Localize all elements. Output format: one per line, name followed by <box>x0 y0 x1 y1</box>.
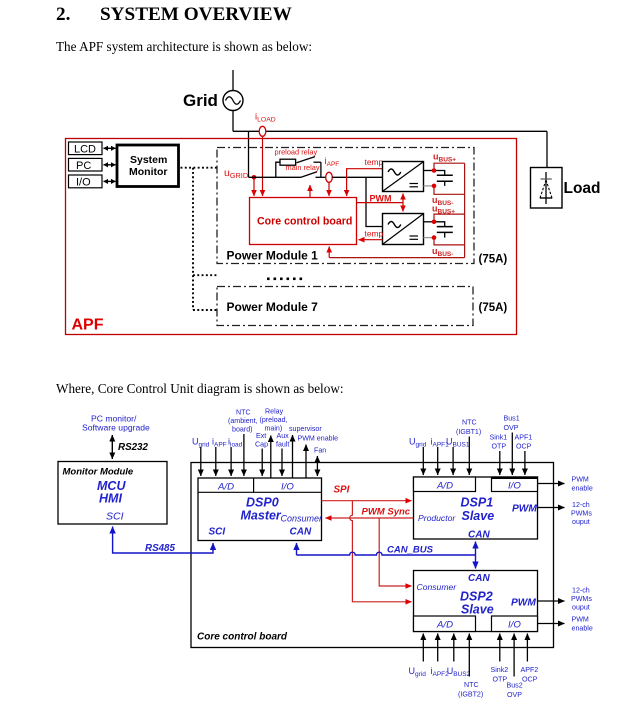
capacitor C1 plates <box>437 175 453 181</box>
block LCD <box>69 142 103 156</box>
svg-text:Monitor Module: Monitor Module <box>63 467 134 478</box>
ellipsis modules 2..6 <box>267 278 302 281</box>
svg-text:Sink1: Sink1 <box>490 434 508 442</box>
svg-text:Bus2: Bus2 <box>507 682 523 690</box>
bus2 sense loop <box>434 214 465 245</box>
svg-text:NTC: NTC <box>462 419 477 427</box>
sense wire iLOAD to core board <box>262 137 264 197</box>
svg-text:Ext: Ext <box>256 432 266 440</box>
block DSP1 <box>414 477 538 541</box>
cap2 bottom stub <box>424 237 435 239</box>
cap1 bottom stub <box>424 185 435 187</box>
signal PWM enable out <box>298 435 339 479</box>
svg-text:main relay: main relay <box>286 163 320 172</box>
signal Ugrid dsp2 <box>409 634 427 679</box>
svg-text:(ambient,: (ambient, <box>228 417 258 425</box>
svg-text:CAN: CAN <box>468 530 490 541</box>
svg-text:uGRID: uGRID <box>224 167 248 180</box>
svg-text:OCP: OCP <box>522 676 538 684</box>
svg-text:fault: fault <box>276 441 289 449</box>
svg-text:12-ch: 12-ch <box>572 501 590 509</box>
svg-text:temp: temp <box>365 157 384 167</box>
svg-text:PWM: PWM <box>511 598 536 609</box>
current sensor iLOAD <box>259 126 266 136</box>
svg-text:OTP: OTP <box>492 443 507 451</box>
svg-text:Bus1: Bus1 <box>504 415 520 423</box>
temp1 wire into core <box>347 169 383 196</box>
core control board enclosure <box>191 463 554 648</box>
preload relay switch blade <box>297 157 316 163</box>
intro paragraph <box>56 39 312 55</box>
signal Ext Cap in <box>255 432 268 476</box>
signal Relay out <box>260 408 288 479</box>
svg-text:CAN: CAN <box>468 573 490 584</box>
relay control arrow from core <box>309 185 311 198</box>
svg-text:(IGBT2): (IGBT2) <box>458 691 483 699</box>
signal Sink1 OTP dsp1 <box>490 434 508 476</box>
inverter 1 <box>383 162 424 192</box>
wire to load <box>546 131 548 167</box>
svg-text:UBUS1: UBUS1 <box>446 437 470 449</box>
wire main AC line left <box>249 176 302 178</box>
bus1 sense loop <box>434 163 465 194</box>
block I/O <box>69 175 103 189</box>
block PC <box>69 158 103 172</box>
signal iAPF2 dsp2 <box>431 634 450 679</box>
svg-text:PWM Sync: PWM Sync <box>362 507 411 518</box>
svg-text:enable: enable <box>572 485 593 493</box>
output PWM enable dsp2 <box>538 616 593 633</box>
svg-text:I/O: I/O <box>508 620 521 631</box>
AC source (grid) <box>223 91 243 111</box>
sense arrow uGRID into core <box>253 179 255 196</box>
svg-text:(preload,: (preload, <box>260 416 288 424</box>
signal Sink2 OTP dsp2 <box>491 634 509 684</box>
cap2 top stub <box>424 221 435 223</box>
cap1 bottom lead <box>444 181 446 186</box>
svg-text:A/D: A/D <box>217 482 234 493</box>
svg-text:PWMs: PWMs <box>571 595 592 603</box>
signal NTC IGBT2 dsp2 <box>458 634 483 699</box>
cap2 bottom lead <box>444 232 446 237</box>
svg-text:Productor: Productor <box>418 513 456 523</box>
Power Module 7 enclosure <box>217 287 473 326</box>
svg-text:iAPF: iAPF <box>212 437 227 449</box>
signal Ugrid in <box>192 437 210 477</box>
svg-text:Core control board: Core control board <box>197 632 288 643</box>
svg-text:Power Module 7: Power Module 7 <box>227 300 319 314</box>
cap2 top lead <box>434 222 445 227</box>
capacitor C2 plates <box>437 227 453 233</box>
svg-text:LCD: LCD <box>74 144 96 156</box>
CAN_BUS wire <box>297 552 476 555</box>
signal iAPF1 dsp1 <box>431 437 450 476</box>
svg-text:Power Module 1: Power Module 1 <box>227 249 319 263</box>
signal APF1 OCP dsp1 <box>515 434 533 476</box>
svg-text:OTP: OTP <box>493 676 508 684</box>
block DSP2 <box>414 571 538 632</box>
svg-text:Master: Master <box>241 509 282 523</box>
svg-text:System: System <box>130 154 167 166</box>
svg-text:I/O: I/O <box>281 482 294 493</box>
wire down into APF <box>248 131 250 177</box>
wire top bus horizontal <box>233 130 547 132</box>
PWM double arrow between inverters <box>402 194 404 212</box>
signal Fan bidirectional <box>314 447 326 477</box>
output PWM enable dsp1 <box>538 476 593 493</box>
output 12ch PWM dsp1 <box>538 501 593 526</box>
svg-text:APF: APF <box>72 317 104 334</box>
signal UBUS2 dsp2 <box>447 634 471 679</box>
block Monitor Module <box>58 462 167 525</box>
svg-text:OVP: OVP <box>504 424 519 432</box>
svg-text:uBUS-: uBUS- <box>432 246 453 258</box>
signal NTC in <box>228 409 258 477</box>
svg-text:iAPF: iAPF <box>325 156 340 168</box>
svg-text:APF1: APF1 <box>515 434 533 442</box>
svg-text:PWM: PWM <box>572 476 589 484</box>
svg-text:A/D: A/D <box>436 481 453 492</box>
svg-text:I/O: I/O <box>508 481 521 492</box>
svg-text:Sink2: Sink2 <box>491 666 509 674</box>
svg-text:board): board) <box>232 426 253 434</box>
heading title <box>100 4 292 26</box>
dotted stub to middle modules <box>193 274 218 276</box>
svg-text:Ugrid: Ugrid <box>409 437 427 449</box>
svg-text:Grid: Grid <box>183 91 218 110</box>
svg-text:Relay: Relay <box>265 408 284 416</box>
signal NTC IGBT1 dsp1 <box>456 419 481 476</box>
svg-text:PC: PC <box>76 160 91 172</box>
svg-text:DSP2: DSP2 <box>460 590 493 604</box>
svg-text:SCI: SCI <box>106 511 124 523</box>
preload branch drop <box>320 162 322 177</box>
signal APF2 OCP dsp2 <box>521 634 539 684</box>
dotted link monitor to module 1 <box>181 167 218 169</box>
wire source to bus <box>232 111 234 132</box>
link PC-SystemMonitor <box>104 164 116 166</box>
svg-text:CAN: CAN <box>290 527 312 538</box>
output 12ch PWM dsp2 <box>538 587 593 612</box>
temp2 wire into core <box>359 239 383 241</box>
svg-text:PWM enable: PWM enable <box>298 435 339 443</box>
signal iAPF in <box>212 437 227 477</box>
svg-text:Slave: Slave <box>462 509 495 523</box>
svg-text:Monitor: Monitor <box>129 166 168 178</box>
preload resistor <box>280 159 296 165</box>
CAN arrow DSP0 <box>296 543 298 555</box>
preload branch riser <box>276 162 280 177</box>
svg-text:NTC: NTC <box>464 681 479 689</box>
svg-text:CAN_BUS: CAN_BUS <box>387 545 434 556</box>
red drop 1 to DSP2 <box>350 501 412 602</box>
bus sense arrow into core <box>328 247 330 258</box>
main relay switch blade <box>301 172 317 178</box>
dotted link to module 7 <box>193 309 219 311</box>
node Ubus1+ <box>432 168 437 173</box>
wire drop to inverter 2 <box>366 177 383 226</box>
svg-text:Ugrid: Ugrid <box>409 666 427 678</box>
svg-text:Fan: Fan <box>314 447 326 455</box>
CAN link DSP1-DSP2 <box>475 542 477 569</box>
svg-text:ouput: ouput <box>572 604 590 612</box>
svg-text:SPI: SPI <box>334 485 350 496</box>
link LCD-SystemMonitor <box>104 147 116 149</box>
bus sense trunk vertical <box>464 163 466 257</box>
svg-text:Consumer: Consumer <box>281 514 324 524</box>
wire grid drop to source <box>232 70 234 91</box>
svg-text:(IGBT1): (IGBT1) <box>456 428 481 436</box>
block Core control board <box>250 198 357 245</box>
signal Ugrid dsp1 <box>409 437 427 476</box>
svg-text:Software upgrade: Software upgrade <box>82 423 150 433</box>
svg-text:iload: iload <box>228 437 243 449</box>
svg-text:Cap: Cap <box>255 441 268 449</box>
wire sensor to inverters <box>332 176 382 178</box>
signal UBUS1 dsp1 <box>446 437 470 476</box>
svg-text:Slave: Slave <box>461 603 494 617</box>
svg-text:(75A): (75A) <box>479 302 508 314</box>
svg-text:preload relay: preload relay <box>275 148 318 157</box>
svg-text:A/D: A/D <box>436 620 453 631</box>
signal Bus1 OVP dsp1 <box>504 415 520 476</box>
svg-text:Load: Load <box>564 180 601 197</box>
cap1 top lead <box>434 171 445 176</box>
svg-text:DSP1: DSP1 <box>461 496 494 510</box>
node Ubus2+ <box>432 220 437 225</box>
svg-text:iLOAD: iLOAD <box>255 112 276 124</box>
preload branch top wire <box>314 161 321 163</box>
APF enclosure box <box>66 139 517 335</box>
link IO-SystemMonitor <box>104 180 116 182</box>
signal Bus2 OVP dsp2 <box>507 634 523 700</box>
node uGRID dot <box>252 175 257 180</box>
svg-text:ouput: ouput <box>572 518 590 526</box>
svg-text:OVP: OVP <box>507 691 522 699</box>
red drop 2 to DSP2 <box>379 518 411 586</box>
link PWM Sync <box>326 517 414 519</box>
dotted trunk vertical <box>192 168 194 310</box>
link SPI <box>322 500 412 502</box>
svg-text:OCP: OCP <box>516 443 532 451</box>
current sensor iAPF <box>326 172 333 182</box>
signal Aux fault in <box>276 432 289 476</box>
sense arrow iAPF into core <box>328 182 330 196</box>
svg-text:enable: enable <box>572 625 593 633</box>
svg-text:PWM: PWM <box>572 616 589 624</box>
svg-text:12-ch: 12-ch <box>572 587 590 595</box>
inverter 2 <box>383 214 424 245</box>
cap1 top stub <box>424 170 435 172</box>
svg-text:(75A): (75A) <box>479 254 508 266</box>
link RS232 double arrow <box>111 435 113 459</box>
svg-text:RS232: RS232 <box>118 442 149 453</box>
bus sense return wire <box>329 257 464 259</box>
node Ubus2- <box>432 235 437 240</box>
link RS485 <box>113 527 213 554</box>
svg-text:SCI: SCI <box>209 527 226 538</box>
svg-text:Core control board: Core control board <box>257 216 352 228</box>
svg-text:RS485: RS485 <box>145 543 176 554</box>
svg-text:Consumer: Consumer <box>417 582 458 592</box>
signal iload in <box>228 437 243 477</box>
svg-text:temp: temp <box>365 229 384 239</box>
block DSP0 <box>198 478 323 541</box>
Power Module 1 enclosure <box>217 148 474 264</box>
signal supervisor out <box>289 425 322 478</box>
block Load <box>531 168 563 209</box>
svg-text:HMI: HMI <box>99 492 122 506</box>
heading section number <box>56 4 70 26</box>
svg-text:uBUS+: uBUS+ <box>433 152 456 164</box>
svg-text:UBUS2: UBUS2 <box>447 666 471 678</box>
svg-text:DSP0: DSP0 <box>246 496 279 510</box>
second paragraph <box>56 381 344 397</box>
svg-text:I/O: I/O <box>76 177 91 189</box>
svg-text:supervisor: supervisor <box>289 425 322 433</box>
svg-text:PWMs: PWMs <box>571 510 592 518</box>
svg-text:NTC: NTC <box>236 409 251 417</box>
PWM wire from core <box>357 202 404 204</box>
block System Monitor <box>117 145 179 187</box>
svg-text:APF2: APF2 <box>521 666 539 674</box>
svg-text:Ugrid: Ugrid <box>192 437 210 449</box>
wire main AC line right <box>316 176 326 178</box>
svg-text:Aux: Aux <box>277 432 290 440</box>
svg-text:PWM: PWM <box>512 504 537 515</box>
node Ubus1- <box>432 184 437 189</box>
